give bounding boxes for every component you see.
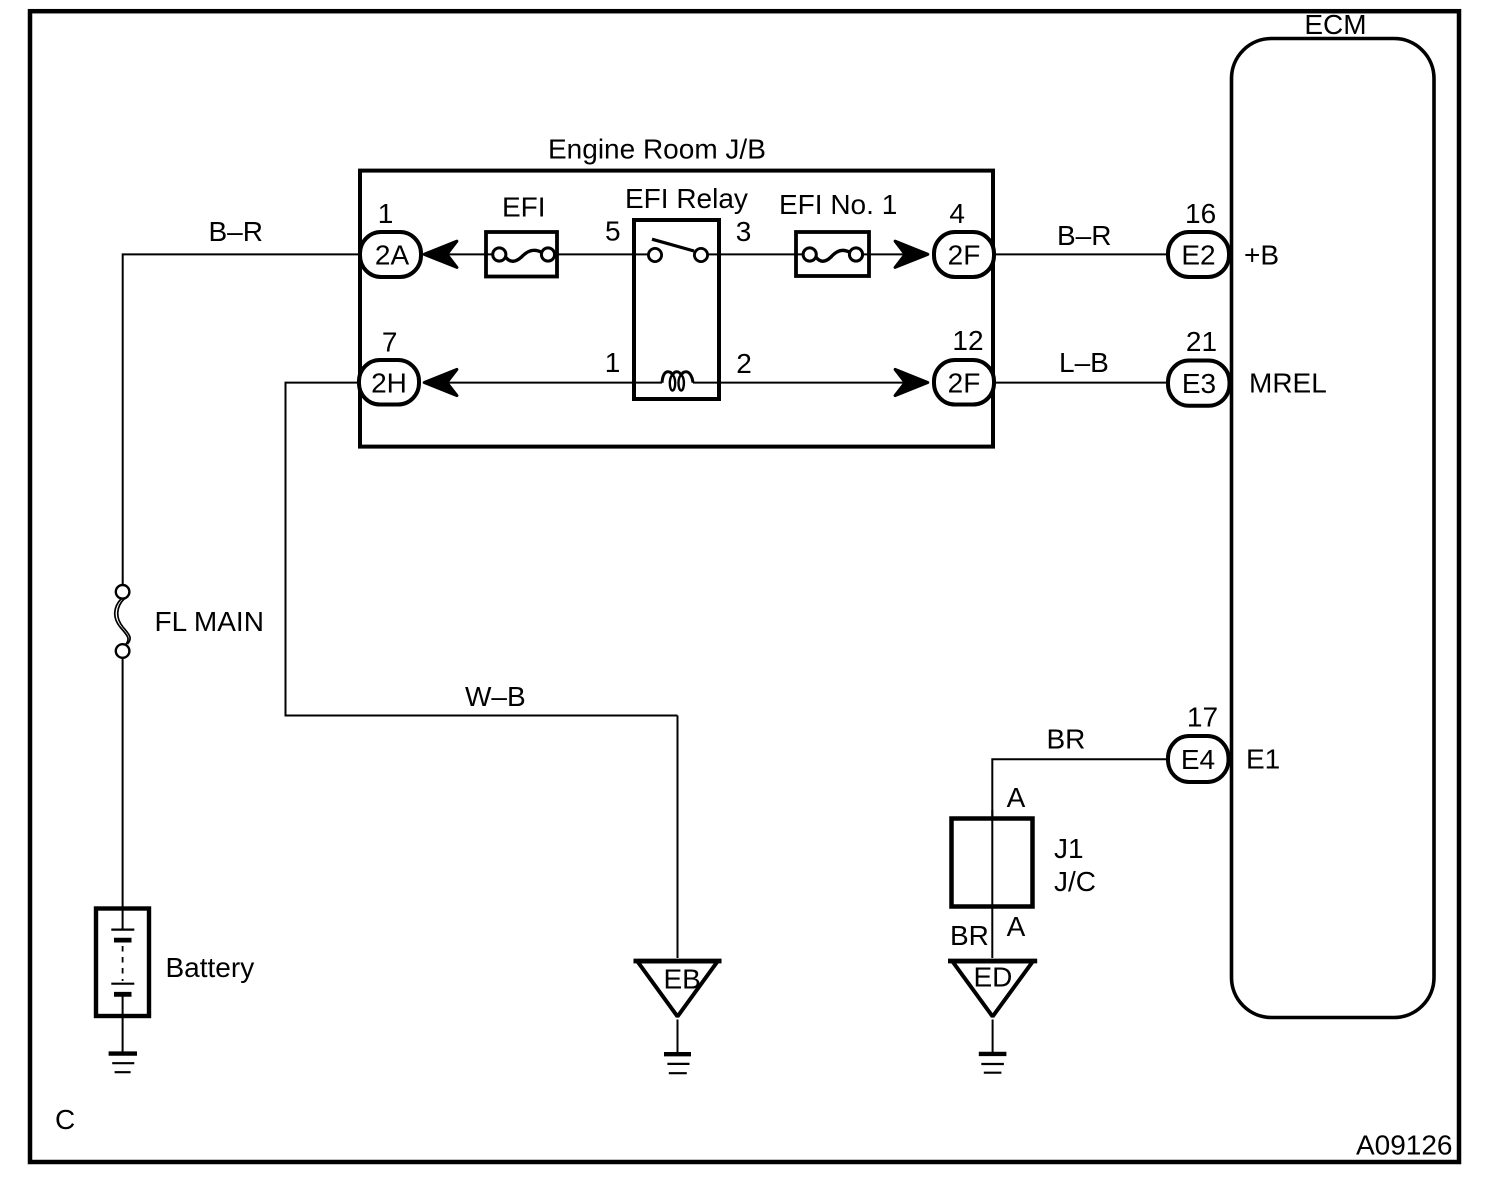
- svg-text:W–B: W–B: [465, 681, 526, 712]
- svg-text:J1: J1: [1054, 833, 1084, 864]
- wire arrow to relay pin1: [447, 382, 634, 384]
- arrow into 2F bottom: [895, 369, 928, 395]
- svg-text:EFI No. 1: EFI No. 1: [779, 189, 897, 220]
- arrow into 2F top: [895, 241, 928, 267]
- wire FL MAIN to battery: [122, 658, 124, 930]
- svg-text:B–R: B–R: [209, 216, 263, 247]
- wire relay pin2 to 2F: [719, 382, 906, 384]
- svg-text:A: A: [1007, 911, 1026, 942]
- svg-text:2F: 2F: [948, 240, 981, 271]
- fuse EFI: [486, 192, 557, 277]
- wire relay interior top: [634, 253, 648, 255]
- fusible link FL MAIN: [115, 585, 264, 658]
- connector 2F pin 4: [934, 198, 994, 277]
- svg-text:BR: BR: [950, 920, 989, 951]
- svg-text:A09126: A09126: [1356, 1130, 1453, 1161]
- relay EFI Relay: [605, 183, 752, 399]
- connector 2A pin 1: [360, 198, 421, 277]
- svg-text:3: 3: [736, 216, 752, 247]
- svg-text:E1: E1: [1246, 744, 1280, 775]
- wire 2F to E2 B-R: [994, 253, 1168, 255]
- svg-text:FL MAIN: FL MAIN: [155, 606, 264, 637]
- svg-text:12: 12: [952, 325, 983, 356]
- arrow into 2H: [424, 369, 457, 395]
- svg-text:1: 1: [605, 347, 621, 378]
- svg-text:B–R: B–R: [1057, 220, 1111, 251]
- svg-text:16: 16: [1185, 198, 1216, 229]
- svg-text:E4: E4: [1181, 744, 1215, 775]
- junction connector J1 J/C: [950, 782, 1096, 951]
- svg-text:17: 17: [1187, 702, 1218, 733]
- svg-text:2: 2: [736, 348, 752, 379]
- svg-text:Battery: Battery: [166, 952, 255, 983]
- svg-text:E3: E3: [1182, 368, 1216, 399]
- svg-text:BR: BR: [1047, 724, 1086, 755]
- wire relay interior bottom: [634, 382, 662, 384]
- connector 2F pin 12: [934, 325, 994, 405]
- relay switch contacts: [648, 239, 707, 261]
- svg-text:J/C: J/C: [1054, 866, 1096, 897]
- ground EB: [664, 1054, 691, 1073]
- svg-text:EB: EB: [664, 964, 701, 995]
- wire arrow to EFI fuse: [447, 253, 495, 255]
- relay coil: [662, 372, 693, 391]
- svg-text:21: 21: [1186, 326, 1217, 357]
- wire relay pin3 to EFI No.1: [719, 253, 805, 255]
- svg-text:Engine Room J/B: Engine Room J/B: [548, 134, 766, 165]
- terminal E3 pin 21: [1168, 326, 1327, 406]
- ground ED: [979, 1054, 1007, 1073]
- wire EFI fuse to relay: [552, 253, 634, 255]
- wire 2F to E3 L-B: [994, 382, 1168, 384]
- connector 2H pin 7: [359, 326, 419, 404]
- fuse EFI No. 1: [779, 189, 897, 276]
- wire EFI No.1 to 2F: [861, 253, 906, 255]
- wire ED apex to ground: [992, 1020, 994, 1053]
- svg-text:7: 7: [382, 326, 398, 357]
- ground point ED: [948, 961, 1037, 1017]
- Engine Room J/B box: [360, 134, 993, 447]
- wire B-R from 2A to FL MAIN: [123, 254, 362, 585]
- terminal E4 pin 17: [1168, 702, 1280, 782]
- svg-text:EFI: EFI: [502, 192, 546, 223]
- battery: [96, 909, 254, 1017]
- svg-text:2H: 2H: [371, 367, 407, 398]
- svg-text:2F: 2F: [948, 367, 981, 398]
- svg-text:A: A: [1007, 782, 1026, 813]
- svg-text:1: 1: [378, 198, 394, 229]
- arrow into 2A: [424, 241, 457, 267]
- wire W-B from 2H toward EB: [286, 383, 678, 716]
- svg-text:EFI Relay: EFI Relay: [625, 183, 748, 214]
- svg-text:L–B: L–B: [1059, 347, 1109, 378]
- svg-text:+B: +B: [1244, 240, 1279, 271]
- ground point EB: [634, 961, 722, 1017]
- ground battery: [109, 1054, 137, 1073]
- wire battery to ground: [122, 996, 124, 1052]
- svg-text:2A: 2A: [375, 240, 410, 271]
- svg-text:C: C: [55, 1104, 75, 1135]
- wire through J1 to ED: [991, 810, 993, 958]
- wire E4 horizontal BR: [992, 759, 1168, 816]
- svg-text:5: 5: [605, 216, 621, 247]
- wire down to EB: [677, 716, 679, 959]
- terminal E2 pin 16: [1168, 198, 1279, 277]
- svg-text:MREL: MREL: [1249, 368, 1327, 399]
- wire EB apex to ground: [677, 1020, 679, 1053]
- svg-text:E2: E2: [1181, 240, 1215, 271]
- svg-text:ED: ED: [974, 962, 1013, 993]
- svg-text:ECM: ECM: [1304, 9, 1366, 40]
- svg-text:4: 4: [949, 198, 965, 229]
- ECM U1: [1232, 9, 1435, 1018]
